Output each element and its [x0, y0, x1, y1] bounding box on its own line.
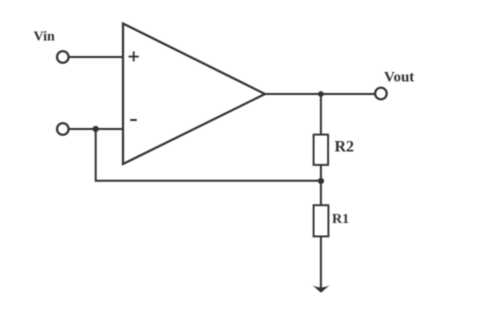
svg-text:R2: R2: [335, 138, 355, 155]
svg-text:R1: R1: [332, 212, 349, 227]
svg-text:Vin: Vin: [34, 30, 55, 45]
svg-text:Vout: Vout: [384, 69, 414, 85]
